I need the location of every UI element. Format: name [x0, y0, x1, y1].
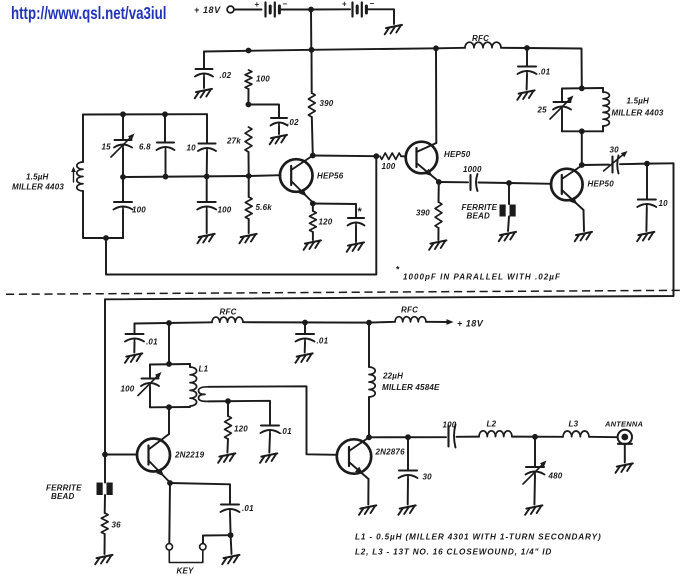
label 100 tank	[132, 206, 146, 215]
svg-text:30: 30	[610, 146, 620, 155]
wire R5.6k top lead	[248, 176, 250, 197]
resistor 120 bottom	[225, 416, 232, 439]
wire output node to right edge	[647, 162, 674, 164]
ground R36	[95, 555, 112, 564]
wire bus down to R390	[311, 50, 313, 93]
junction key cap node	[228, 532, 234, 538]
label +18V supply terminal	[194, 5, 221, 15]
wire emitter node down to key	[168, 483, 171, 544]
wire tank2 top	[562, 87, 603, 90]
label 2N2876	[375, 448, 406, 457]
wire tank3 top	[150, 363, 190, 366]
label L2	[487, 420, 497, 429]
ground R390b	[429, 240, 446, 249]
label 390 Q1	[320, 99, 334, 108]
label 120 bottom	[234, 425, 248, 434]
label HEP50 Q2	[444, 150, 471, 159]
label 100	[256, 75, 270, 84]
wire R120b top lead	[227, 401, 229, 416]
junction bus at Q2 collector line	[433, 45, 439, 51]
ground Q5 emitter	[359, 505, 376, 514]
ground C30	[398, 505, 415, 514]
wire R100 to node	[247, 89, 249, 105]
label .01 secondary	[280, 427, 292, 436]
resistor 390 collector Q1	[308, 93, 315, 117]
junction tank top at C15	[120, 111, 126, 117]
site URL watermark	[11, 3, 166, 24]
svg-text:MILLER 4403: MILLER 4403	[612, 109, 664, 118]
emitter Q4	[149, 461, 171, 483]
ground key	[222, 555, 239, 564]
ground C10out	[637, 232, 654, 241]
capacitor 10 output	[637, 200, 656, 209]
junction secondary lower at R120b	[225, 398, 231, 404]
resistor 100 coupling	[380, 153, 401, 159]
inductor L1	[190, 367, 197, 406]
wire key node to ground	[230, 535, 233, 554]
wire C.01a lead	[526, 48, 528, 66]
label RFC top	[472, 34, 489, 43]
wire C10out to ground	[645, 208, 647, 231]
label 10	[187, 144, 197, 153]
wire trimmer to output node	[620, 163, 647, 166]
svg-text:RFC: RFC	[220, 308, 237, 317]
junction bottom bus at tank3	[166, 320, 172, 326]
svg-text:L2: L2	[487, 420, 497, 429]
label 390 Q2	[416, 209, 430, 218]
svg-text:ANTENNA: ANTENNA	[604, 420, 643, 429]
wire secondary upper to Q5 base	[209, 386, 338, 455]
svg-text:100: 100	[218, 206, 232, 215]
wire 22uH to PA collector node	[368, 397, 370, 437]
junction base rail at 27k	[246, 173, 252, 179]
svg-text:−: −	[370, 0, 375, 8]
wire tank2 left lower	[561, 111, 563, 132]
label * asterisk	[358, 206, 363, 218]
dashed section divider	[6, 290, 684, 294]
svg-text:HEP50: HEP50	[444, 150, 471, 159]
label .01 bottom mid	[317, 337, 329, 346]
ground ferrite bead top	[499, 232, 516, 241]
svg-text:KEY: KEY	[177, 567, 195, 576]
variable capacitor 100 bottom	[138, 372, 162, 396]
label 100 second	[218, 206, 232, 215]
wire R27k to base line	[248, 152, 250, 176]
wire C480 to ground	[533, 476, 536, 505]
svg-text:2N2219: 2N2219	[174, 451, 205, 460]
capacitor .01 secondary	[261, 426, 280, 435]
wire collector node to R100 coupling	[313, 155, 377, 158]
wire R36 to ground	[104, 534, 106, 554]
wire tank3 to Q4 collector	[168, 407, 170, 434]
capacitor .01 bottom mid	[296, 334, 315, 343]
antenna connector	[618, 430, 632, 444]
junction bottom bus at C.01c	[302, 320, 308, 326]
wire C100b to ground	[206, 211, 208, 234]
label ANTENNA	[604, 420, 643, 429]
wire divider node to C .02b	[248, 105, 279, 118]
svg-text:10: 10	[659, 199, 669, 208]
emitter Q1	[291, 181, 313, 203]
svg-text:1.5µH: 1.5µH	[26, 173, 49, 182]
svg-text:MILLER 4584E: MILLER 4584E	[382, 383, 440, 392]
label 36	[112, 521, 122, 530]
svg-text:−: −	[283, 0, 288, 9]
wire link left down to Q4 base	[104, 299, 106, 454]
junction tank3 top	[166, 361, 172, 367]
wire tank top corner to C10	[206, 114, 208, 142]
junction bus at Q1 collector line	[309, 47, 315, 53]
wire Q2 emitter to R390b	[438, 182, 440, 202]
ground C*	[347, 242, 364, 251]
ground R120	[304, 240, 321, 249]
label 15	[102, 143, 112, 152]
wire C.01d to ground	[268, 434, 271, 453]
junction bus at R 100	[246, 48, 252, 54]
svg-text:BEAD: BEAD	[51, 492, 74, 501]
label RFC bottom right	[401, 306, 418, 315]
capacitor .01 top section	[518, 67, 537, 76]
capacitor * emitter bypass	[348, 218, 365, 227]
wire C.01b to ground	[133, 343, 135, 353]
collector Q1	[291, 156, 313, 171]
wire C480 lead	[534, 437, 536, 466]
wire key node to right key terminal	[203, 535, 231, 543]
svg-text:.01: .01	[146, 338, 158, 347]
junction output at C480	[532, 434, 538, 440]
ground C480	[525, 505, 542, 514]
junction divider node	[246, 102, 252, 108]
junction tank2 bottom	[579, 128, 585, 134]
junction bottom bus at PA collector	[366, 320, 372, 326]
terminal +18V (open circle)	[227, 6, 234, 13]
wire C.01a to ground	[526, 75, 528, 90]
wire terminal to battery B1	[234, 9, 262, 11]
wire bus down to Q2 collector	[435, 48, 437, 143]
svg-text:L1 - 0.5µH (MILLER 4301 WI: L1 - 0.5µH (MILLER 4301 WITH 1-TURN SECO…	[355, 533, 602, 542]
transistor Q2 HEP50	[406, 142, 438, 174]
wire base rail	[123, 175, 281, 177]
ground C .02	[195, 89, 212, 98]
svg-text:1000pF IN PARALLEL WITH .0: 1000pF IN PARALLEL WITH .02µF	[403, 273, 561, 282]
wire tank3 bottom	[150, 406, 190, 408]
wire bead node to ground	[508, 183, 509, 231]
junction battery node	[308, 7, 314, 13]
variable capacitor 480	[523, 461, 547, 485]
svg-text:+: +	[342, 0, 347, 9]
resistor 5.6k	[245, 197, 252, 219]
wire emitter node to C.01e	[170, 483, 230, 504]
label 5.6k	[256, 203, 273, 212]
junction Q4 emitter node	[167, 480, 173, 486]
wire C1000 to bead node	[479, 182, 510, 185]
wire C .02 to ground	[203, 78, 205, 89]
wire C100s to L2	[457, 436, 480, 438]
wire Q2 emitter to C1000	[439, 181, 468, 183]
junction base rail at C15	[120, 174, 126, 180]
wire tank top	[83, 113, 207, 115]
battery B2	[342, 0, 375, 17]
label MILLER 4403	[12, 183, 64, 192]
junction tank bottom tap	[103, 235, 109, 241]
wire collector node to trimmer	[582, 164, 609, 166]
svg-text:L1: L1	[199, 365, 209, 374]
label .01 bottom left	[146, 338, 158, 347]
wire C100a top lead	[122, 177, 124, 201]
wire bus down to 22uH	[368, 323, 370, 367]
label 10 output	[659, 199, 669, 208]
svg-text:*: *	[396, 265, 400, 275]
svg-text:25: 25	[537, 106, 548, 115]
label FERRITE BEAD bottom	[46, 484, 82, 502]
transistor Q3 HEP50	[551, 169, 583, 201]
resistor 100 top divider	[245, 70, 252, 89]
transistor Q1 HEP56	[280, 159, 313, 192]
collector Q5	[349, 437, 369, 451]
transistor Q5 2N2876	[337, 439, 371, 473]
label HEP56	[317, 172, 344, 181]
label MILLER 4403 second	[612, 109, 664, 118]
ground C100b	[197, 234, 214, 243]
svg-text:6.8: 6.8	[139, 143, 151, 152]
ground R120b	[218, 453, 235, 462]
key lever	[169, 550, 203, 562]
svg-text:.01: .01	[317, 337, 329, 346]
svg-text:390: 390	[416, 209, 430, 218]
wire C100b top lead	[206, 176, 208, 201]
capacitor 100 tank	[114, 202, 133, 211]
junction PA collector node	[366, 434, 372, 440]
wire battery B1 to node	[279, 9, 308, 11]
svg-text:390: 390	[320, 99, 334, 108]
ground R5.6k	[239, 234, 256, 243]
wire tank2 right lower	[602, 126, 604, 131]
wire link down right edge	[105, 163, 674, 299]
wire RFC3 lead	[369, 321, 395, 324]
label KEY	[177, 567, 195, 576]
junction base rail at C6.8	[163, 174, 169, 180]
wire feedback tap	[106, 156, 376, 274]
label 480	[548, 472, 563, 481]
wire node to battery B2	[311, 8, 350, 10]
ground antenna	[616, 463, 633, 472]
inductor L2	[479, 431, 512, 437]
wire RFC node to tank2	[527, 48, 582, 88]
label .01 key	[242, 504, 254, 513]
junction tank top at C6.8	[162, 111, 168, 117]
svg-text:1000: 1000	[463, 165, 482, 174]
junction Q2 emitter node	[436, 179, 442, 185]
junction Q4 base node	[102, 452, 108, 458]
wire tank2 to Q3 collector node	[581, 131, 583, 165]
svg-text:22µH: 22µH	[382, 372, 403, 381]
wire RFC3 to +18V arrow	[426, 319, 454, 325]
wire bottom bus	[135, 322, 213, 323]
svg-text:L2, L3 - 13T NO. 16 CLOSE: L2, L3 - 13T NO. 16 CLOSEWOUND, 1/4" ID	[355, 548, 552, 557]
junction feedback node	[373, 153, 379, 159]
label MILLER 4584E	[382, 383, 440, 392]
svg-text:1.5µH: 1.5µH	[627, 97, 650, 106]
svg-text:100: 100	[443, 421, 457, 430]
emitter Q3	[562, 190, 584, 210]
wire Q5 emitter to ground	[367, 479, 369, 505]
svg-text:100: 100	[132, 206, 146, 215]
wire PA node to C30	[369, 436, 446, 438]
svg-text:*: *	[358, 206, 363, 218]
resistor 120 emitter Q1	[310, 211, 317, 232]
wire RFC to C.01 node	[501, 47, 527, 49]
wire R100c to Q2 base	[401, 155, 406, 157]
label .01 top	[539, 68, 551, 77]
svg-text:15: 15	[102, 143, 112, 152]
svg-text:.01: .01	[539, 68, 551, 77]
note *1000pF in parallel	[396, 265, 561, 282]
svg-text:.02: .02	[287, 118, 299, 127]
svg-text:RFC: RFC	[401, 306, 418, 315]
label 6.8	[139, 143, 151, 152]
wire base node through bead to R36	[104, 455, 106, 514]
wire C10out lead	[646, 164, 648, 199]
label +18V bottom	[457, 319, 484, 329]
wire antenna to ground	[624, 444, 626, 463]
capacitor .01 key	[221, 505, 240, 514]
note L1 winding	[355, 533, 602, 542]
svg-text:10: 10	[187, 144, 197, 153]
wire bus end down to C .02	[203, 52, 205, 69]
ground C.01c	[295, 353, 312, 362]
capacitor 100 second	[197, 202, 216, 211]
junction ferrite bead node	[506, 180, 512, 186]
wire tank2 right upper stub	[602, 88, 604, 92]
wire L1 top stub	[189, 364, 191, 367]
key terminal right (open circle)	[200, 544, 206, 550]
emitter Q2	[417, 163, 439, 182]
svg-text:+ 18V: + 18V	[457, 319, 484, 329]
svg-text:MILLER 4403: MILLER 4403	[12, 183, 64, 192]
wire tank left bottom	[83, 191, 123, 238]
svg-text:120: 120	[319, 218, 333, 227]
label FERRITE BEAD top	[462, 203, 498, 221]
wire Q4 base	[105, 454, 137, 456]
label L1	[199, 365, 209, 374]
ground C.01b	[125, 353, 142, 362]
emitter Q5	[349, 462, 369, 479]
wire C30 lead	[407, 437, 409, 469]
ground C.01a	[517, 90, 534, 99]
wire top supply bus	[204, 48, 465, 52]
resistor 36	[101, 513, 108, 534]
junction Q3 collector node	[579, 162, 585, 168]
svg-text:+ 18V: + 18V	[194, 5, 221, 15]
wire C.01c lead	[304, 323, 306, 334]
wire C .02b to ground	[278, 127, 280, 135]
wire C30 to ground	[407, 479, 409, 505]
svg-text:HEP56: HEP56	[317, 172, 344, 181]
inductor 1.5uH MILLER 4403 second	[603, 92, 609, 126]
collector Q4	[149, 434, 170, 450]
svg-text:100: 100	[382, 162, 396, 171]
ferrite bead bottom (two blocks)	[97, 483, 113, 496]
junction tank2 top	[579, 85, 585, 91]
wire C100a to tank bottom	[122, 211, 124, 239]
inductor L1 secondary 1-turn link	[199, 387, 209, 402]
wire tank left side	[82, 115, 84, 163]
capacitor 1000 coupling	[471, 174, 478, 191]
wire R5.6k to ground	[248, 219, 250, 233]
junction base rail at C10	[204, 174, 210, 180]
wire battery B2 to ground	[366, 9, 394, 24]
transistor Q4 2N2219	[137, 439, 170, 472]
label .02 second	[287, 118, 299, 127]
ground C.01d	[260, 453, 277, 462]
svg-text:.01: .01	[280, 427, 292, 436]
svg-text:27k: 27k	[226, 137, 241, 146]
junction output at C30	[405, 434, 411, 440]
label 30 output	[423, 473, 433, 482]
wire L3 to antenna	[589, 436, 618, 438]
svg-text:36: 36	[112, 521, 122, 530]
wire bead node to Q3 base	[509, 182, 552, 185]
ground Q3 emitter	[575, 232, 592, 241]
svg-text:5.6k: 5.6k	[256, 203, 273, 212]
label 1.5uH second	[627, 97, 650, 106]
svg-text:BEAD: BEAD	[467, 212, 490, 221]
label HEP50 Q3	[588, 180, 615, 189]
inductor 22uH MILLER 4584E	[369, 367, 375, 397]
svg-text:HEP50: HEP50	[588, 180, 615, 189]
wire battery node down to bus	[310, 10, 312, 51]
capacitor 10	[198, 144, 216, 153]
capacitor 100 series output	[449, 425, 456, 448]
wire R390 to collector node	[312, 117, 313, 156]
wire C6.8 top lead	[164, 114, 166, 141]
svg-text:100: 100	[256, 75, 270, 84]
inductor L3	[563, 431, 589, 437]
svg-text:+: +	[255, 0, 260, 9]
capacitor 6.8	[157, 143, 175, 152]
wire R120b to ground	[226, 439, 229, 453]
wire L2 to node	[512, 436, 563, 438]
capacitor .02 second	[271, 118, 288, 127]
svg-text:120: 120	[234, 425, 248, 434]
junction tank3 bottom	[166, 404, 172, 410]
label 100 output	[443, 421, 457, 430]
svg-text:.02: .02	[220, 71, 232, 80]
trimmer capacitor 30 series	[604, 151, 628, 174]
wire emitter node to C*	[313, 204, 356, 218]
ground C .02b	[270, 135, 287, 144]
wire tank2 left upper	[561, 89, 563, 102]
label 30 trimmer	[610, 146, 620, 155]
label 22uH	[382, 372, 403, 381]
svg-text:2N2876: 2N2876	[375, 448, 406, 457]
wire tank2 bottom	[562, 130, 603, 132]
capacitor 30 output	[399, 471, 418, 480]
wire C10 to mid rail	[206, 152, 208, 176]
label 1000	[463, 165, 482, 174]
label 1.5uH	[26, 173, 49, 182]
svg-text:.01: .01	[242, 504, 254, 513]
junction RFC node	[524, 45, 530, 51]
radio-frequency choke RFC2	[212, 317, 243, 322]
wire C* to ground	[355, 227, 357, 243]
label 27k	[226, 137, 241, 146]
battery B1	[255, 0, 288, 17]
inductor 1.5uH MILLER 4403	[77, 162, 83, 191]
ferrite bead top (two blocks)	[500, 205, 516, 217]
wire C.01c to ground	[304, 343, 306, 353]
wire C.01b lead	[134, 324, 136, 334]
